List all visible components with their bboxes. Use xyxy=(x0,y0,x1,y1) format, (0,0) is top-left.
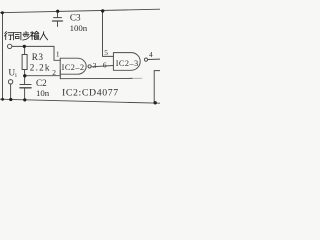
op gate IC2-2 body xyxy=(60,58,86,74)
svg-text:4: 4 xyxy=(149,50,153,59)
wire bottom rail xyxy=(0,99,160,103)
svg-text:10n: 10n xyxy=(36,88,50,98)
svg-text:R3: R3 xyxy=(32,52,44,62)
hanzi 行 xyxy=(5,31,13,39)
node top-left xyxy=(1,11,4,14)
svg-text:6: 6 xyxy=(103,61,107,70)
junction dots xyxy=(1,9,157,104)
node Ui on rail xyxy=(9,98,12,101)
wire gate2 output xyxy=(148,58,160,60)
svg-text:3: 3 xyxy=(93,61,97,70)
svg-text:2: 2 xyxy=(52,68,56,77)
hanzi 输 xyxy=(30,31,39,39)
bubble gate2 xyxy=(144,58,147,61)
svg-text:C3: C3 xyxy=(70,13,81,23)
svg-text:C2: C2 xyxy=(36,78,47,88)
node C2 on rail xyxy=(23,98,26,101)
label 行同步输入 (hand drawn strokes) xyxy=(5,31,48,40)
capacitor C3 xyxy=(53,11,63,26)
wire gate1 lower stub xyxy=(59,70,61,79)
bubble gate1 xyxy=(88,65,91,68)
wire long feedback under gates xyxy=(60,77,132,79)
svg-text:100n: 100n xyxy=(70,23,88,33)
wire pin5 drop from top rail xyxy=(103,11,114,57)
terminal Ui circle xyxy=(8,80,12,84)
wire Ui stem xyxy=(10,84,12,99)
node input/R3 xyxy=(23,45,26,48)
node left rail bottom xyxy=(1,98,4,101)
svg-text:5: 5 xyxy=(104,48,108,57)
wire left rail xyxy=(2,13,4,100)
svg-text:IC2:CD4077: IC2:CD4077 xyxy=(62,88,119,99)
svg-text:IC2–3: IC2–3 xyxy=(116,59,139,68)
wire R3 bottom lead xyxy=(24,70,26,76)
terminal input circle xyxy=(8,44,12,48)
node R3/C2/pin2 xyxy=(23,74,26,77)
resistor R3 xyxy=(22,55,27,70)
svg-text:1: 1 xyxy=(56,50,60,59)
node right branch on rail xyxy=(154,101,157,104)
wire right edge branch xyxy=(154,71,160,103)
wire gate1 output to gate2 pin6 xyxy=(91,66,113,67)
hanzi 步 xyxy=(23,31,30,40)
svg-text:2.2k: 2.2k xyxy=(30,63,51,73)
svg-text:IC2–2: IC2–2 xyxy=(62,63,85,72)
op gate IC2-3 body xyxy=(113,53,140,71)
hanzi 入 xyxy=(40,32,48,40)
paper background xyxy=(0,0,160,110)
wire pin2 horizontal xyxy=(25,75,61,77)
capacitor C2 xyxy=(20,76,31,100)
wire input horizontal xyxy=(12,45,54,47)
node C3 top xyxy=(56,10,59,13)
wire R3 top lead xyxy=(24,46,26,54)
node pin5 top xyxy=(101,9,104,12)
wire pin1 route xyxy=(54,46,60,60)
hanzi 同 xyxy=(14,32,21,39)
wire top rail xyxy=(0,9,160,13)
